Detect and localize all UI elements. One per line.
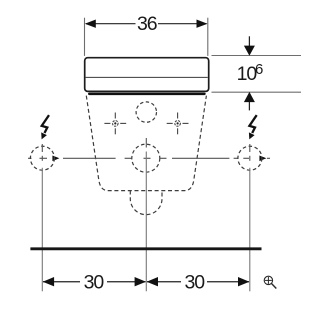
lightning bolt left [41,115,49,139]
cistern (design cover) rectangle [85,58,209,92]
svg-text:30: 30 [84,272,105,294]
cistern front dark bar [88,93,206,96]
small dashed circle (water connection) [136,102,156,122]
dimension 36 extension line right [207,18,209,56]
electrical connection dashed circle right [238,146,262,170]
dimension 30 right line [147,281,181,283]
fastening target cross right [167,113,189,135]
magnifier zoom icon [264,276,276,288]
dimension 10 bottom arrow + stem [248,102,250,111]
dimension 36 arrow right [197,20,208,28]
dimension 10 top extension line [212,55,302,57]
cistern lid split line [86,76,208,78]
lightning bolt right [249,115,257,139]
fastening target cross left [104,113,126,135]
dimension 36 extension line left [84,18,86,56]
large dashed circle (drain) [132,144,160,172]
dimension 36 line [86,23,136,25]
horizontal centerline segments [28,157,270,159]
spray arm cover dashed U [130,191,162,215]
dimension 30 arrows [43,277,54,286]
toilet bowl dashed outline [86,96,206,191]
dimension 10 bottom extension line [212,91,302,93]
centerline arrow at left circle [52,156,59,162]
mid vertical centerline dash above drain circle [145,138,147,148]
svg-text:30: 30 [185,272,206,294]
right circle vertical centerline dashes [249,144,251,161]
right vertical extension line [249,168,251,291]
dimension 36 arrow left [85,20,96,28]
centerline arrow at right circle [259,156,266,162]
mid vertical extension line [145,152,147,292]
wall line [30,247,261,250]
left circle vertical centerline dashes [41,144,43,161]
electrical connection dashed circle left [30,146,54,170]
svg-text:36: 36 [137,13,157,35]
dimension 10 top arrow + stem [248,36,250,46]
left vertical extension line [41,168,43,291]
svg-text:6: 6 [255,61,263,78]
dimension 30 left line [43,281,80,283]
